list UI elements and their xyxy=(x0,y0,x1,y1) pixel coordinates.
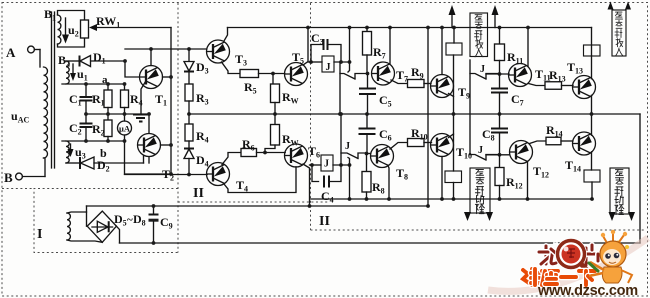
svg-text:I: I xyxy=(37,227,42,242)
svg-text:II: II xyxy=(193,186,204,201)
svg-text:b: b xyxy=(100,146,107,160)
svg-text:J: J xyxy=(326,62,331,73)
svg-text:www.dzsc.com: www.dzsc.com xyxy=(537,283,638,298)
svg-text:J: J xyxy=(478,145,483,156)
svg-text:J: J xyxy=(345,141,350,152)
svg-text:B: B xyxy=(4,170,13,185)
svg-text:A: A xyxy=(6,45,16,60)
svg-text:J: J xyxy=(324,159,329,170)
svg-text:II: II xyxy=(319,214,330,229)
svg-text:μA: μA xyxy=(119,124,131,134)
svg-text:J: J xyxy=(480,64,485,75)
